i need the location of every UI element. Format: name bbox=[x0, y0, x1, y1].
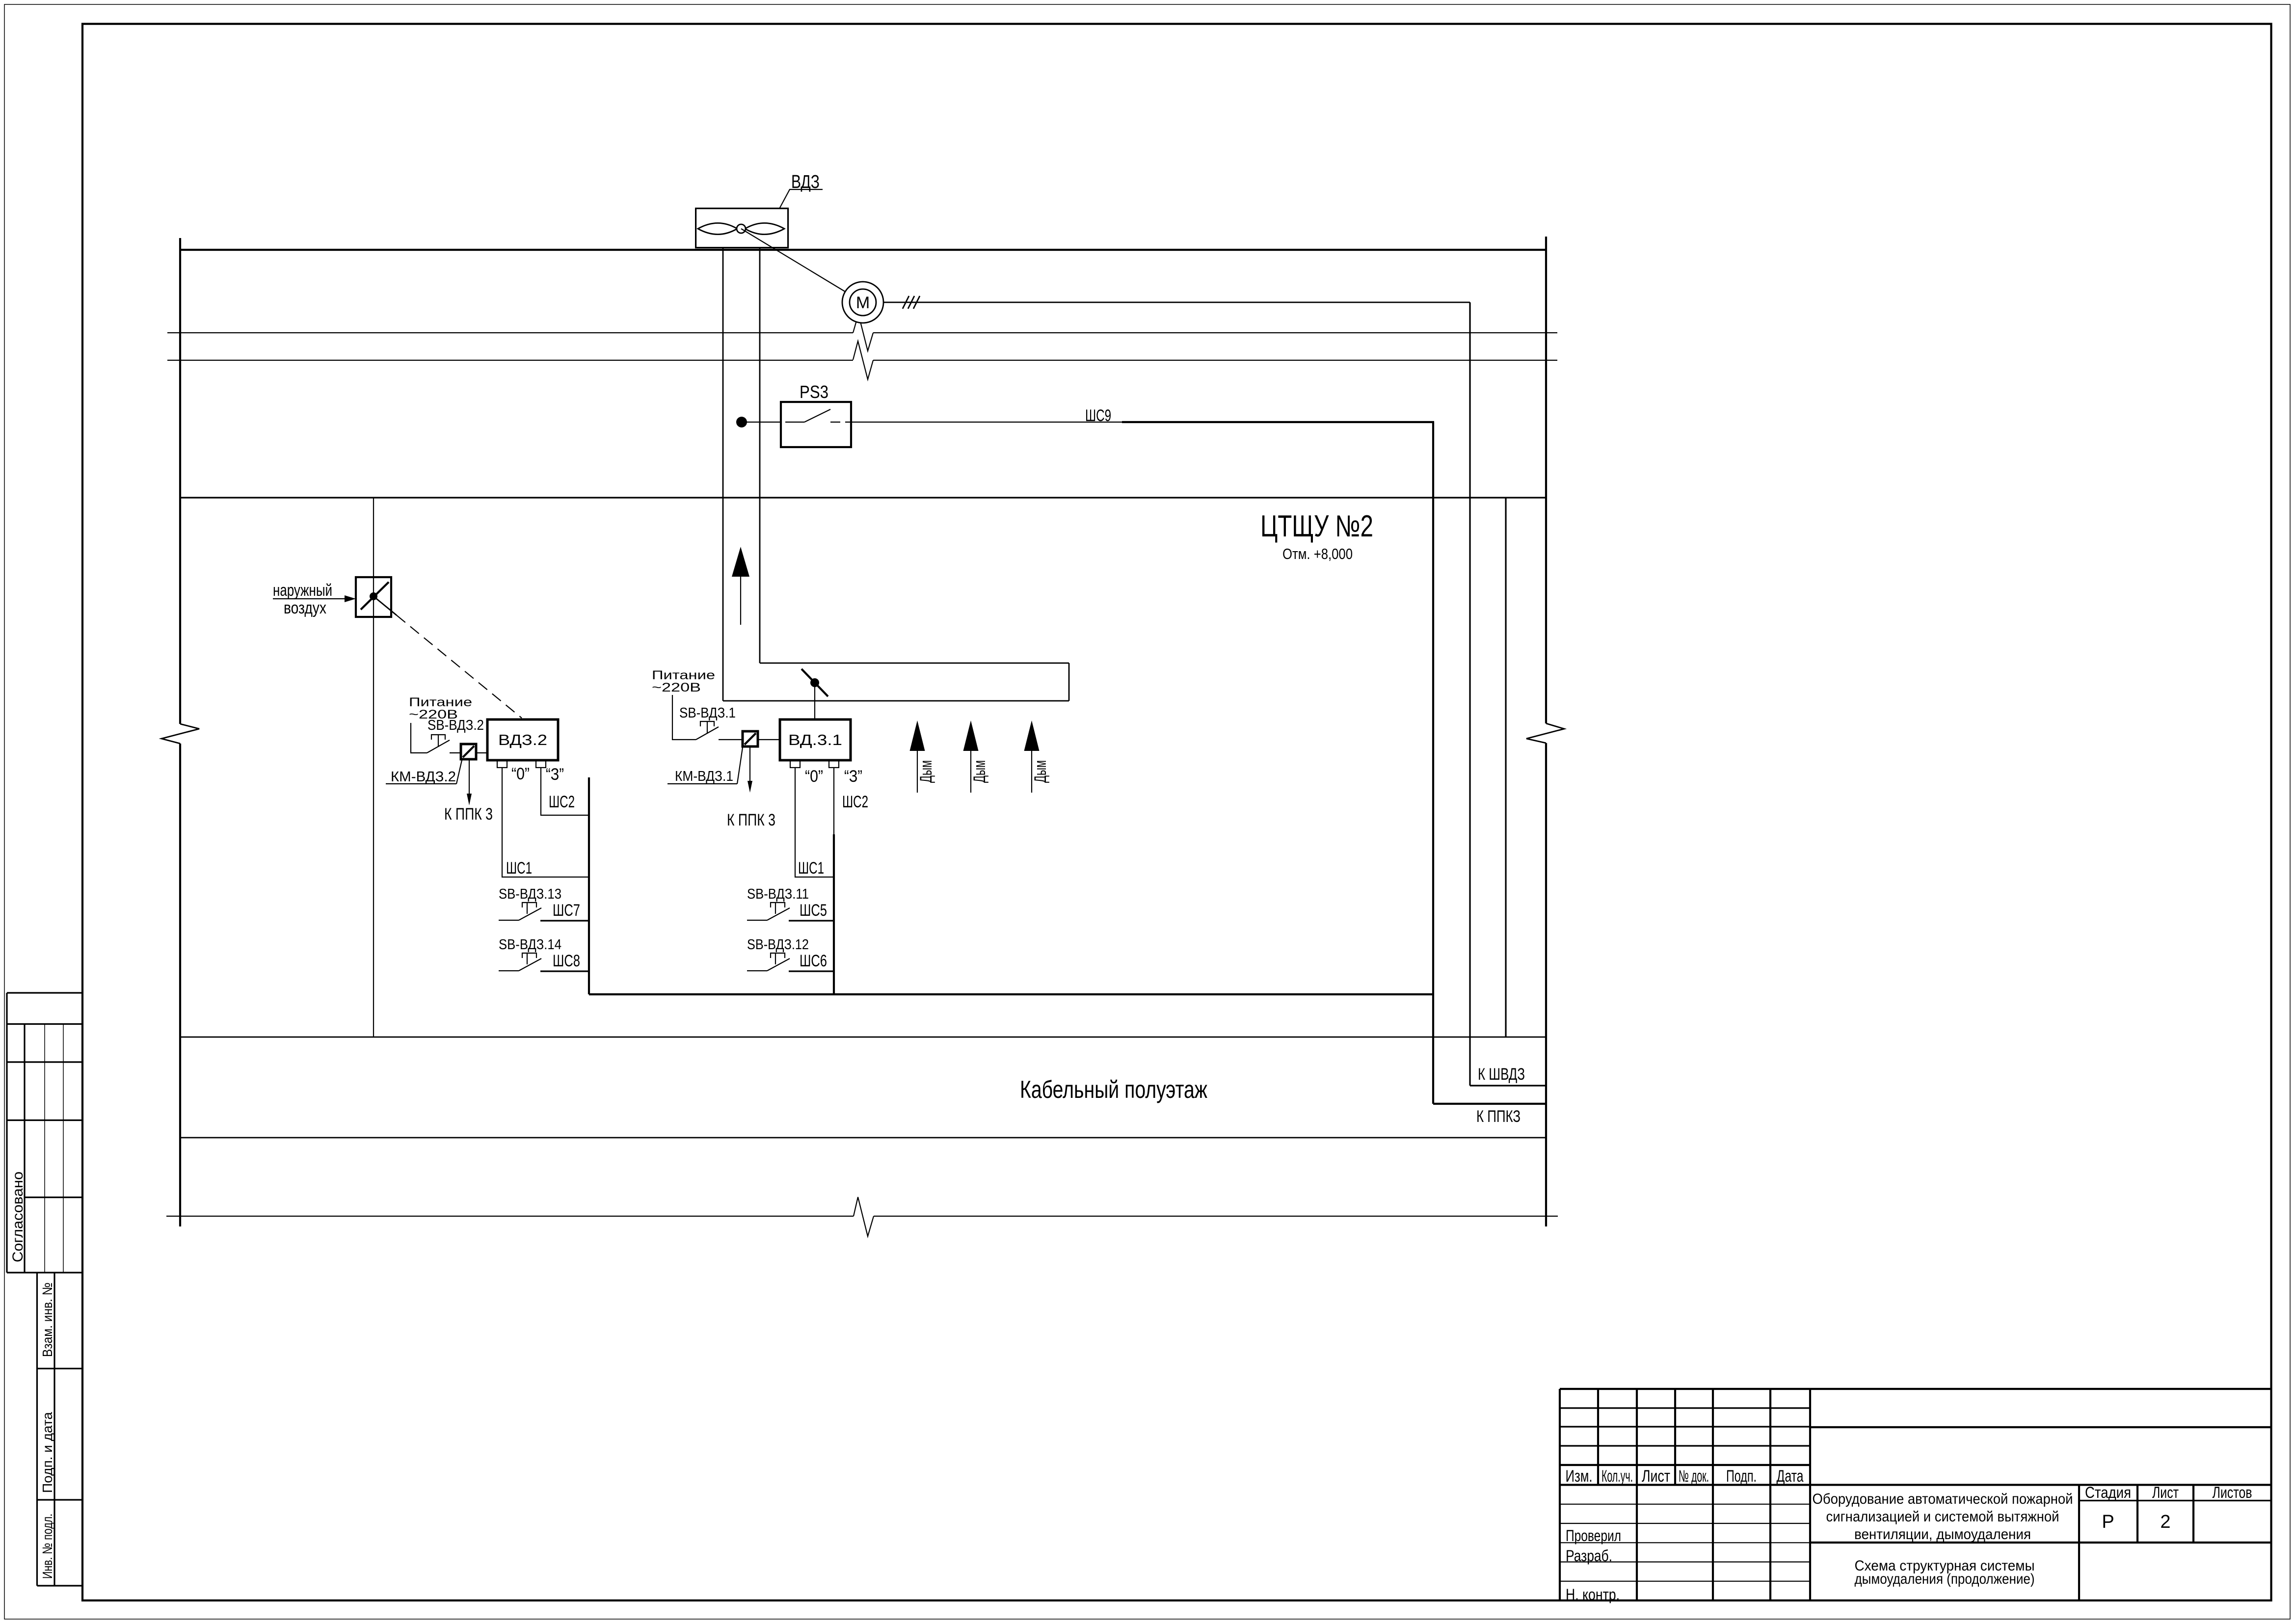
collector bus left group bbox=[588, 777, 590, 994]
svg-text:дымоудаления (продолжение): дымоудаления (продолжение) bbox=[1855, 1571, 2035, 1587]
svg-text:PS3: PS3 bbox=[800, 382, 828, 402]
svg-text:SB-ВДЗ.12: SB-ВДЗ.12 bbox=[747, 937, 809, 953]
wire ShS9 thin part bbox=[851, 422, 1122, 423]
bottom slab line left part bbox=[166, 1216, 854, 1217]
svg-text:Стадия: Стадия bbox=[2085, 1484, 2131, 1501]
svg-text:Взам. инв. №: Взам. инв. № bbox=[40, 1282, 55, 1357]
push button SB-VD3.13 bbox=[499, 903, 541, 920]
push button SB-VD3.14 bbox=[499, 953, 541, 971]
svg-text:“З”: “З” bbox=[844, 767, 862, 786]
svg-text:ВД.3.1: ВД.3.1 bbox=[788, 731, 842, 748]
vertical duct right line bbox=[759, 248, 761, 663]
svg-text:Разраб.: Разраб. bbox=[1566, 1547, 1612, 1565]
upper floor slab line 1 left part bbox=[167, 332, 853, 333]
junction dot in duct bbox=[736, 417, 747, 427]
svg-text:Отм. +8,000: Отм. +8,000 bbox=[1282, 545, 1353, 562]
svg-text:К ППК 3: К ППК 3 bbox=[444, 805, 493, 824]
VD3.2 control box bbox=[487, 719, 558, 760]
wire ShS1 (right): vertical from 0 bbox=[795, 768, 834, 877]
svg-text:ШС8: ШС8 bbox=[553, 952, 580, 970]
cable ShS9 thick part bbox=[1122, 421, 1434, 423]
svg-text:М: М bbox=[856, 293, 870, 312]
leader KM-VD3.1 bbox=[737, 747, 743, 784]
svg-text:КМ-ВДЗ.1: КМ-ВДЗ.1 bbox=[675, 769, 733, 784]
svg-text:сигнализацией и системой вытяж: сигнализацией и системой вытяжной bbox=[1826, 1509, 2059, 1525]
fan blade right bbox=[745, 223, 784, 235]
svg-text:SB-ВДЗ.14: SB-ВДЗ.14 bbox=[499, 937, 561, 953]
VD.3.1 control box bbox=[780, 719, 851, 760]
upper floor slab line 1 right part bbox=[873, 332, 1557, 333]
svg-text:ШС2: ШС2 bbox=[842, 793, 868, 811]
svg-text:Р: Р bbox=[2102, 1512, 2114, 1532]
terminal 0 (right box) bbox=[790, 760, 800, 768]
svg-text:Н. контр.: Н. контр. bbox=[1566, 1586, 1620, 1603]
svg-text:ЦТЩУ №2: ЦТЩУ №2 bbox=[1260, 509, 1373, 543]
right wall break zigzag bbox=[1526, 723, 1564, 743]
svg-text:К ППКЗ: К ППКЗ bbox=[1476, 1107, 1521, 1126]
motor power line to the right bbox=[883, 302, 1470, 303]
cable riser to ShVD3 bbox=[1469, 302, 1470, 1086]
wire ShS7 lead bbox=[540, 920, 589, 921]
push button SB-VD3.1: actuator bbox=[700, 721, 714, 734]
svg-text:воздух: воздух bbox=[284, 599, 326, 617]
fan blade left bbox=[698, 223, 737, 235]
collector bus bottom horizontal bbox=[589, 993, 1433, 995]
break zigzag on slab line 1 (motor lead break) bbox=[853, 314, 873, 351]
fan hub circle bbox=[737, 224, 746, 233]
floor line above cable half-floor bbox=[180, 1037, 1546, 1038]
wire ShS5 lead bbox=[789, 920, 834, 921]
push button SB-VD3.2: actuator bbox=[431, 735, 445, 747]
svg-text:К ППК 3: К ППК 3 bbox=[727, 811, 775, 829]
outside air damper blade bbox=[361, 582, 389, 610]
horizontal duct bottom line bbox=[723, 700, 1069, 702]
damper stem to VD.3.1 box bbox=[814, 683, 815, 719]
wire ShS2 (left): vertical from Z bbox=[541, 768, 589, 815]
duct end cap bbox=[1068, 663, 1070, 701]
svg-text:№ док.: № док. bbox=[1679, 1467, 1709, 1486]
svg-text:~220В: ~220В bbox=[652, 681, 701, 694]
lead KM to VD3.2 box bbox=[477, 752, 487, 753]
leader line for VD3 label bbox=[779, 189, 823, 209]
svg-text:Инв. № подл.: Инв. № подл. bbox=[40, 1514, 55, 1579]
air flow arrow in duct: head bbox=[732, 547, 749, 577]
svg-text:Изм.: Изм. bbox=[1566, 1467, 1593, 1486]
fan VD3 casing box bbox=[696, 209, 788, 248]
break zigzag on slab line 2 bbox=[853, 341, 873, 379]
PS3 switch contact bbox=[785, 409, 851, 422]
svg-text:ВДЗ: ВДЗ bbox=[791, 172, 820, 192]
svg-text:ШС9: ШС9 bbox=[1085, 406, 1111, 425]
svg-text:ШС5: ШС5 bbox=[800, 901, 827, 920]
svg-text:SB-ВДЗ.13: SB-ВДЗ.13 bbox=[499, 886, 561, 902]
svg-text:Листов: Листов bbox=[2213, 1484, 2252, 1501]
outside air damper box bbox=[356, 577, 391, 617]
svg-text:вентиляции, дымоудаления: вентиляции, дымоудаления bbox=[1854, 1526, 2031, 1543]
svg-text:Питание: Питание bbox=[409, 695, 472, 709]
contactor KM diagonal (right) bbox=[745, 733, 756, 745]
damper on horizontal duct: pivot dot bbox=[810, 678, 819, 687]
three-phase hatch marks bbox=[903, 296, 920, 309]
break zigzag on bottom slab line bbox=[854, 1197, 874, 1236]
cable to ShVD3 horizontal bbox=[1470, 1085, 1546, 1086]
svg-text:SB-ВДЗ.1: SB-ВДЗ.1 bbox=[679, 705, 736, 721]
leader KM-VD3.2 bbox=[456, 760, 462, 784]
upper floor slab line 2 right part bbox=[873, 360, 1557, 361]
upper floor slab line 2 left part bbox=[167, 360, 853, 361]
motor drive link line from fan hub bbox=[741, 229, 863, 302]
motor outer circle bbox=[842, 282, 883, 323]
svg-text:Оборудование автоматической по: Оборудование автоматической пожарной bbox=[1813, 1491, 2073, 1507]
left wall upper segment bbox=[179, 238, 181, 724]
svg-text:ШС2: ШС2 bbox=[549, 793, 575, 811]
outside air leader line bbox=[273, 598, 345, 599]
push button SB-VD3.2: right lead bbox=[450, 752, 460, 753]
push button SB-VD3.1: right lead bbox=[719, 739, 742, 740]
left wall lower segment bbox=[179, 744, 181, 1226]
terminal Z (left box) bbox=[536, 760, 546, 768]
vertical line from room top through damper to floor bbox=[373, 498, 374, 1037]
outside air arrowhead bbox=[345, 595, 356, 602]
cable to PPKZ horizontal bbox=[1433, 1103, 1546, 1105]
right wall upper segment bbox=[1545, 237, 1547, 723]
bottom slab line right part bbox=[874, 1216, 1558, 1217]
terminal 0 (left box) bbox=[497, 760, 507, 768]
svg-text:Кол.уч.: Кол.уч. bbox=[1602, 1467, 1633, 1486]
wire ShS6 lead bbox=[789, 970, 834, 972]
cable half-floor bottom line bbox=[180, 1137, 1546, 1139]
arrow to PPK3 (right): head bbox=[748, 781, 752, 793]
smoke arrow 2 bbox=[963, 720, 989, 793]
smoke arrow 1 bbox=[910, 720, 936, 793]
svg-text:наружный: наружный bbox=[273, 581, 332, 600]
svg-text:Проверил: Проверил bbox=[1566, 1527, 1621, 1544]
svg-text:К ШВДЗ: К ШВДЗ bbox=[1478, 1065, 1525, 1084]
svg-text:Дым: Дым bbox=[1031, 760, 1050, 783]
wire ShS1 (left): vertical from 0 bbox=[502, 768, 589, 877]
svg-text:Лист: Лист bbox=[1642, 1467, 1670, 1486]
motor inner circle bbox=[850, 289, 876, 316]
arrow to PPK3 (right): stem bbox=[749, 747, 750, 782]
svg-text:Дым: Дым bbox=[970, 760, 989, 783]
vertical duct left line bbox=[722, 248, 724, 701]
dashed control link to VD3.2 bbox=[374, 596, 397, 615]
power feed line (left) bbox=[411, 723, 427, 753]
svg-text:ШС1: ШС1 bbox=[506, 859, 532, 878]
push button SB-VD3.12 bbox=[747, 953, 790, 971]
contactor KM box (right) bbox=[743, 731, 758, 746]
power feed line (right) bbox=[672, 695, 696, 740]
cable riser to PPKZ bbox=[1432, 422, 1434, 1104]
svg-text:Лист: Лист bbox=[2152, 1484, 2179, 1501]
svg-text:КМ-ВДЗ.2: КМ-ВДЗ.2 bbox=[391, 769, 456, 785]
collector bus right group bbox=[833, 834, 835, 994]
svg-text:ВДЗ.2: ВДЗ.2 bbox=[498, 731, 547, 748]
contactor KM box (left) bbox=[461, 744, 476, 759]
push button SB-VD3.2: blade bbox=[427, 740, 450, 753]
contactor KM diagonal (left) bbox=[463, 746, 474, 757]
lead from junction to PS3 bbox=[742, 422, 781, 423]
lead KM to VD.3.1 box bbox=[759, 739, 780, 740]
room top line (CTSHU room) bbox=[180, 497, 1546, 498]
push button SB-VD3.1: blade bbox=[696, 727, 719, 740]
ceiling slab line bbox=[180, 249, 1546, 251]
svg-text:Подп. и дата: Подп. и дата bbox=[40, 1412, 55, 1493]
room partition line bbox=[1505, 498, 1506, 1037]
left wall break zigzag bbox=[161, 724, 199, 744]
svg-text:SB-ВДЗ.2: SB-ВДЗ.2 bbox=[427, 718, 484, 733]
svg-text:“З”: “З” bbox=[546, 765, 564, 784]
svg-text:SB-ВДЗ.11: SB-ВДЗ.11 bbox=[747, 886, 809, 902]
horizontal duct top line bbox=[760, 663, 1069, 664]
damper on horizontal duct: blade bbox=[801, 669, 828, 696]
svg-text:Согласовано: Согласовано bbox=[10, 1171, 26, 1262]
svg-text:“0”: “0” bbox=[511, 765, 530, 783]
right wall lower segment bbox=[1545, 743, 1547, 1226]
svg-text:Дата: Дата bbox=[1777, 1467, 1804, 1486]
svg-text:Дым: Дым bbox=[917, 760, 935, 783]
PS3 box bbox=[781, 402, 851, 447]
smoke arrow 3 bbox=[1024, 720, 1050, 793]
svg-text:Питание: Питание bbox=[652, 668, 715, 682]
svg-text:2: 2 bbox=[2160, 1512, 2170, 1532]
air flow arrow in duct: stem bbox=[740, 575, 741, 625]
svg-text:Подп.: Подп. bbox=[1726, 1467, 1757, 1486]
svg-text:“0”: “0” bbox=[805, 767, 823, 786]
wire ShS2 (right) vertical thin bbox=[833, 768, 834, 834]
terminal Z (right box) bbox=[829, 760, 839, 768]
wire ShS8 lead bbox=[540, 970, 589, 972]
svg-text:ШС6: ШС6 bbox=[800, 952, 827, 970]
arrow to PPK3 (left): head bbox=[467, 794, 472, 805]
outside air damper pivot dot bbox=[370, 592, 377, 600]
svg-text:ШС7: ШС7 bbox=[553, 901, 580, 920]
svg-text:Кабельный полуэтаж: Кабельный полуэтаж bbox=[1020, 1076, 1207, 1103]
arrow to PPK3 (left): stem bbox=[469, 760, 470, 795]
push button SB-VD3.11 bbox=[747, 903, 790, 920]
svg-text:ШС1: ШС1 bbox=[798, 859, 824, 878]
